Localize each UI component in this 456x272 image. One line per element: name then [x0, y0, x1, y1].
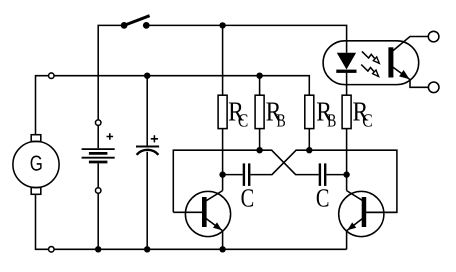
Q2 base wire [366, 211, 397, 213]
U1 light arrow 2 [361, 65, 378, 77]
svg-text:B: B [327, 111, 336, 131]
battery top wire [97, 119, 99, 148]
svg-text:C: C [241, 183, 255, 212]
G circle [13, 141, 59, 187]
C3 flat plus plate [136, 146, 159, 148]
G label [30, 151, 43, 175]
capacitor C2 right plate [324, 163, 326, 186]
node junction bus/capacitor [144, 73, 150, 79]
svg-text:C: C [362, 111, 372, 131]
label RB1 [266, 96, 286, 132]
svg-text:C: C [238, 111, 248, 131]
optocoupler U1 [323, 31, 439, 92]
wire battery plus to switch (left vertical + top-left rail) [98, 25, 124, 119]
Q1 emitter slant [206, 219, 223, 231]
wire RB2 bottom stub [308, 129, 310, 151]
U1 LED triangle [337, 53, 356, 70]
battery bottom wire [97, 163, 99, 249]
resistor RC1 body [218, 95, 227, 128]
battery long plate 2 [82, 157, 115, 159]
node junction RC2/C2 [343, 171, 349, 177]
resistor RB2 body [305, 95, 314, 128]
U1 emitter terminal [428, 82, 439, 93]
wire RC2 bottom to Q2 collector [346, 129, 348, 191]
U1 phototransistor bar [388, 47, 393, 77]
switch SA lever [124, 16, 150, 26]
Q2 emitter slant [347, 219, 363, 231]
capacitor C1 right plate [248, 163, 250, 186]
U1 collector terminal [428, 31, 439, 42]
wire Q1 collector node to C1 left plate [223, 174, 243, 176]
svg-text:C: C [316, 183, 330, 212]
battery short plate 1 [89, 152, 108, 155]
node junction RB2/lower cross wire [306, 147, 312, 153]
C3 curved plate [137, 150, 159, 155]
terminal circle on ground rail [49, 247, 55, 253]
resistor RB1 body [255, 95, 264, 128]
Q1 collector slant [206, 191, 223, 201]
ground rail (bottom) [36, 194, 347, 249]
Q2 envelope circle [339, 191, 384, 236]
label RB2 [316, 96, 336, 132]
svg-text:G: G [30, 151, 43, 175]
terminal circle on bus [49, 73, 55, 79]
transistor Q1 [173, 191, 230, 237]
capacitor C1 left plate [243, 163, 245, 186]
Q2 emitter arrowhead [347, 222, 356, 230]
Q2 collector slant [347, 191, 363, 201]
C3 top wire [146, 76, 148, 146]
G top brush terminal [31, 135, 41, 142]
node junction RC1/C1 [219, 171, 225, 177]
node junction bus/RB1 [256, 73, 262, 79]
switch SA left contact dot [121, 22, 128, 29]
G bottom brush terminal [31, 188, 41, 195]
battery plus sign [107, 133, 114, 140]
battery short plate 2 [89, 161, 108, 164]
battery top terminal circle [95, 120, 101, 126]
U1 LED cathode bar [336, 70, 356, 73]
Q2 base bar [362, 197, 367, 227]
node junction RB1/upper cross wire [256, 147, 262, 153]
Q1 envelope circle [185, 191, 230, 236]
C3 plus sign [151, 135, 158, 142]
label RC2 [353, 96, 373, 132]
wire RC1 top feed [222, 25, 224, 95]
U1 light arrow 1 [362, 51, 379, 63]
transistor Q2 [339, 191, 397, 237]
wire top rail from switch to LED feed [146, 25, 346, 52]
capacitor C2 left plate [319, 163, 321, 186]
node junction rail/Q1 emitter [219, 246, 225, 252]
U1 phototransistor collector [392, 37, 428, 52]
Q1 base wire [173, 211, 202, 213]
node junction rail/battery [95, 246, 101, 252]
label C2 [316, 183, 330, 212]
wire RB1 top stub [259, 76, 261, 96]
Q1 emitter arrowhead [213, 222, 222, 230]
wire RC1 bottom to Q1 collector [222, 129, 224, 191]
wire RB1 bottom stub [259, 129, 261, 151]
C3 bottom wire [146, 152, 148, 250]
wire C1 right plate over cross to RB2 and Q2 base [250, 150, 397, 212]
Q1 base bar [202, 197, 207, 227]
wire V+ bus (generator to RB2) [36, 76, 310, 135]
battery bottom terminal circle [95, 188, 101, 194]
wire Q2 emitter to ground rail [346, 231, 348, 250]
wire C2 right plate to Q2 collector [326, 174, 346, 176]
wire LED cathode to RC2 [346, 73, 348, 95]
wire Q1 base node: base up and over to C2 left plate [173, 150, 318, 212]
resistor RC2 body [342, 95, 351, 128]
generator G [13, 135, 59, 195]
U1 package outline [323, 41, 419, 85]
U1 emitter arrowhead [399, 70, 410, 79]
switch SA right contact dot [143, 22, 150, 29]
wire Q1 emitter to ground rail [222, 231, 224, 250]
battery long plate 1 [82, 148, 115, 150]
battery BT [82, 119, 115, 249]
node junction rail/C3 [144, 246, 150, 252]
electrolytic capacitor C3 [136, 76, 159, 250]
node junction top rail / RC1 [219, 22, 225, 28]
svg-text:B: B [277, 111, 286, 131]
U1 phototransistor emitter [392, 67, 428, 88]
label RC1 [228, 96, 248, 132]
label C1 [241, 183, 255, 212]
